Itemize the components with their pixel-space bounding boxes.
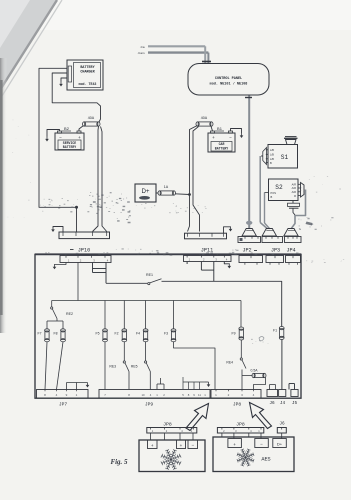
svg-text:·Ca: ·Ca bbox=[140, 45, 145, 49]
connector plug JP2 bbox=[242, 229, 257, 237]
stubs to fridge terminals bbox=[150, 433, 152, 440]
D+ block bbox=[135, 184, 156, 202]
svg-text:F8: F8 bbox=[54, 332, 58, 336]
svg-text:mod. NE101 / NE108: mod. NE101 / NE108 bbox=[210, 81, 248, 86]
ground arrow at JP10 strip bbox=[55, 263, 67, 265]
svg-text:JP7: JP7 bbox=[59, 402, 68, 408]
svg-text:B: B bbox=[270, 161, 272, 165]
svg-text:S1: S1 bbox=[281, 154, 289, 161]
scanner left edge strip bbox=[0, 0, 1, 1]
svg-text:JP4: JP4 bbox=[286, 248, 295, 254]
svg-text:40A: 40A bbox=[88, 116, 95, 120]
scan speckle noise bbox=[8, 120, 345, 344]
connector above S1 bbox=[286, 140, 297, 145]
ground at JP11 pin4 bbox=[224, 227, 231, 233]
board connector J5 bbox=[291, 390, 298, 397]
wires F7 F8 to JP7 bbox=[45, 342, 47, 390]
svg-text:S2: S2 bbox=[275, 184, 283, 191]
jumper at JP7 pins 9-1 bbox=[66, 383, 68, 390]
wire F5 to JP9 bbox=[104, 342, 106, 390]
wire: 1A fuse to battery feed bbox=[175, 193, 190, 196]
svg-text:L/B: L/B bbox=[270, 157, 274, 161]
wire pair: car fuse to JP11 bbox=[188, 126, 198, 232]
wire: S2 right harness down and around bbox=[291, 190, 306, 229]
svg-text:A/R: A/R bbox=[292, 186, 296, 190]
ladder JP10 pins 3-4 bbox=[92, 263, 94, 273]
snowflake AES fridge bbox=[237, 449, 254, 466]
svg-text:CONTROL PANEL: CONTROL PANEL bbox=[215, 77, 242, 81]
junction blob bbox=[75, 206, 78, 209]
relay contact RE5 bbox=[145, 342, 147, 361]
svg-text:F1: F1 bbox=[273, 329, 277, 333]
svg-text:F3: F3 bbox=[164, 332, 168, 336]
snowflake standard fridge bbox=[161, 449, 181, 469]
board connector JP3 strip bbox=[266, 256, 284, 263]
board connector JP10 strip bbox=[60, 256, 111, 263]
board connector J4 bbox=[279, 390, 286, 397]
connector stubs bbox=[244, 263, 246, 265]
svg-text:mod. TE43: mod. TE43 bbox=[79, 82, 97, 86]
svg-text:B1: B1 bbox=[217, 126, 223, 131]
wire: RE1 to F1 feed bbox=[162, 281, 282, 326]
ground at service battery minus bbox=[47, 130, 60, 137]
svg-text:F5: F5 bbox=[96, 332, 100, 336]
svg-text:J6: J6 bbox=[279, 422, 285, 427]
svg-text:−: − bbox=[260, 441, 263, 446]
svg-text:−: − bbox=[191, 442, 194, 447]
relay box S1 bbox=[268, 145, 298, 169]
svg-text:F9: F9 bbox=[232, 332, 236, 336]
power bus bbox=[52, 300, 241, 302]
svg-text:A/R: A/R bbox=[292, 183, 296, 187]
svg-text:BATTERY: BATTERY bbox=[63, 145, 76, 149]
battery charger TE43 bbox=[67, 60, 103, 90]
svg-text:+: + bbox=[212, 135, 215, 140]
svg-text:+: + bbox=[233, 442, 236, 447]
wire F1 to J4 bbox=[281, 340, 283, 390]
svg-text:CHARGER: CHARGER bbox=[80, 71, 95, 75]
svg-text:R: R bbox=[294, 194, 296, 198]
relay box S2 bbox=[269, 179, 299, 201]
svg-text:JP8: JP8 bbox=[233, 402, 242, 408]
svg-text:10: 10 bbox=[141, 393, 145, 397]
svg-text:J4: J4 bbox=[280, 401, 286, 406]
connector plug JP3 bbox=[262, 229, 277, 237]
board connector JP2 strip bbox=[239, 256, 263, 263]
wire: service battery plus to fuse bbox=[79, 126, 84, 132]
scanner corner shadow top-left bbox=[0, 0, 57, 90]
board connector JP4 strip bbox=[286, 256, 301, 263]
svg-text:D+: D+ bbox=[277, 442, 283, 447]
wire F3 to JP8 pin1 bbox=[174, 342, 216, 390]
svg-text:BATTERY: BATTERY bbox=[215, 146, 228, 150]
svg-text:JP8: JP8 bbox=[163, 422, 172, 428]
connector plug JP11 bbox=[185, 233, 227, 239]
svg-text:B: B bbox=[271, 195, 273, 199]
svg-text:RE2: RE2 bbox=[66, 312, 73, 316]
board connector JP7 strip bbox=[37, 390, 89, 399]
svg-text:F2: F2 bbox=[115, 332, 119, 336]
board connector JP11 strip bbox=[184, 256, 232, 262]
svg-text:Fig. 5: Fig. 5 bbox=[110, 458, 128, 466]
svg-text:L/B: L/B bbox=[270, 153, 274, 157]
ladder JP11 pins bbox=[186, 262, 188, 265]
wire: charger to service fuse bbox=[52, 73, 100, 122]
ground at charger bbox=[61, 78, 67, 82]
connector under S2 bbox=[292, 200, 294, 203]
bracket over F7 F8 bbox=[47, 320, 63, 322]
jumper at J6 bbox=[269, 385, 271, 390]
svg-text:F4: F4 bbox=[136, 332, 140, 336]
svg-text:·Cam: ·Cam bbox=[137, 51, 145, 55]
relay contact RE3 bbox=[123, 342, 125, 361]
svg-text:1A: 1A bbox=[164, 185, 169, 189]
circuit board outline bbox=[35, 254, 301, 398]
plug on S2 right harness bbox=[301, 183, 305, 198]
jumper at J5 bbox=[289, 383, 295, 385]
stubs to AES fridge bbox=[221, 433, 223, 437]
ground arrow at JP11 strip bbox=[224, 262, 229, 265]
fridge box standard bbox=[139, 440, 205, 472]
svg-text:A/R: A/R bbox=[292, 190, 296, 194]
ground at JP10 pin1 bbox=[53, 227, 63, 232]
svg-text:J6: J6 bbox=[269, 401, 275, 406]
plug on S1 harness bbox=[263, 148, 267, 165]
ground at car battery minus bbox=[231, 129, 242, 134]
svg-text:+: + bbox=[151, 443, 154, 448]
wire: JP10 pin2 to bus bbox=[77, 263, 79, 301]
jumper over JP9 pins bbox=[156, 384, 158, 390]
svg-text:F7: F7 bbox=[38, 332, 42, 336]
junction blob on panel wire bbox=[246, 221, 252, 225]
connector plug JP10 bbox=[59, 232, 110, 239]
svg-text:40A: 40A bbox=[201, 116, 208, 120]
control panel NE101/NE108 bbox=[188, 64, 269, 96]
svg-text:JP10: JP10 bbox=[78, 248, 90, 254]
svg-text:B2: B2 bbox=[64, 126, 70, 131]
wire: charger to JP10 pin2 bbox=[39, 68, 77, 231]
svg-text:11: 11 bbox=[198, 393, 201, 397]
svg-text:+: + bbox=[180, 443, 183, 448]
wire pair: fuse to JP10 pins 3,4 bbox=[93, 127, 99, 232]
wire: mains pair into control panel bbox=[148, 45, 205, 47]
arrow to JP8 left bbox=[186, 404, 209, 431]
wire: S2 POS harness down bbox=[264, 193, 266, 224]
svg-text:0.5A: 0.5A bbox=[251, 369, 259, 373]
arrow to JP8 right bbox=[250, 403, 272, 429]
board connector J6 bbox=[267, 390, 278, 397]
board connector JP9 strip bbox=[99, 390, 210, 399]
svg-text:+: + bbox=[78, 135, 81, 140]
wire: control panel drop to JP2 plug bbox=[248, 95, 250, 229]
svg-text:JP9: JP9 bbox=[145, 402, 154, 408]
connector plug JP4 bbox=[284, 229, 299, 237]
comb over JP9 right pins bbox=[183, 381, 205, 383]
svg-text:JP2: JP2 bbox=[242, 248, 251, 254]
wire: S1 harness down bbox=[259, 156, 261, 223]
svg-text:D+: D+ bbox=[141, 188, 149, 195]
fridge box AES bbox=[213, 437, 294, 472]
svg-text:JP3: JP3 bbox=[271, 248, 280, 254]
svg-text:RE4: RE4 bbox=[226, 361, 233, 365]
svg-text:BATTERY: BATTERY bbox=[80, 66, 95, 70]
svg-text:J5: J5 bbox=[292, 401, 298, 406]
svg-text:RE3: RE3 bbox=[109, 365, 116, 369]
svg-text:POS: POS bbox=[271, 191, 277, 195]
svg-text:AES: AES bbox=[261, 457, 270, 463]
wire to RE1 bbox=[106, 282, 147, 284]
svg-text:−: − bbox=[59, 135, 62, 140]
relay contact RE2 bbox=[51, 301, 53, 307]
svg-text:JP8: JP8 bbox=[236, 422, 245, 428]
svg-text:RE1: RE1 bbox=[146, 273, 153, 277]
svg-text:RE5: RE5 bbox=[131, 365, 138, 369]
svg-text:L/B: L/B bbox=[270, 148, 274, 152]
relay contact RE4 bbox=[240, 340, 242, 358]
svg-text:−: − bbox=[229, 135, 232, 140]
board connector JP8 strip bbox=[211, 390, 261, 399]
